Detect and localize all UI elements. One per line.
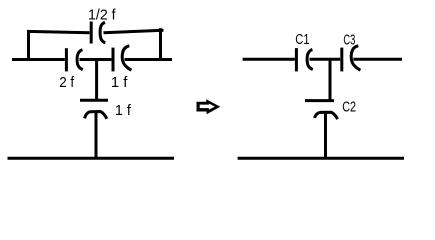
svg-text:1/2 f: 1/2 f [88,7,116,24]
arrow (implication) inner [200,104,215,110]
svg-text:C3: C3 [343,31,355,48]
capacitor C=1f(shunt) curved plate [85,112,107,119]
capacitor C1 curved plate [307,49,313,69]
capacitor C=1/2f curved plate [100,22,105,43]
wire right junction vertical [329,59,332,99]
wire left leg vertical [27,30,30,61]
wire C2 bottom vertical [324,112,327,158]
capacitor C2 flat plate [305,99,334,102]
wire right leg vertical [159,28,162,61]
wire right circuit top horizontal left [243,58,295,61]
svg-text:2 f: 2 f [59,74,75,91]
wire middle-left horizontal [12,58,65,61]
wire shunt-capacitor bottom vertical [95,112,98,158]
wire middle-right horizontal [125,58,173,61]
wire bottom-left rail [8,157,175,160]
capacitor C3 curved plate [351,46,360,70]
svg-text:C1: C1 [295,31,309,48]
capacitor C=1/2f flat plate [90,22,93,44]
svg-text:1 f: 1 f [111,74,128,91]
capacitor C=1f curved plate [122,46,131,70]
svg-text:1 f: 1 f [115,102,132,119]
capacitor C2 curved plate [314,112,337,119]
arrow (implication) outer [197,99,221,114]
capacitor C1 flat plate [295,48,298,71]
capacitor C=2f flat plate [65,48,68,71]
capacitor C=1f(shunt) flat plate [80,99,108,102]
wire right circuit top horizontal right [353,58,402,61]
wire bottom-right rail [238,157,404,160]
wire middle-center horizontal [80,58,112,61]
capacitor C=1f flat plate [112,48,115,72]
wire junction vertical [95,60,98,100]
wire right circuit top horizontal middle [310,58,341,61]
wire top-left horizontal [27,31,90,32]
capacitor C=2f curved plate [77,50,83,70]
svg-text:C2: C2 [342,98,356,115]
wire top-right horizontal [104,30,164,32]
capacitor C3 flat plate [340,48,343,72]
